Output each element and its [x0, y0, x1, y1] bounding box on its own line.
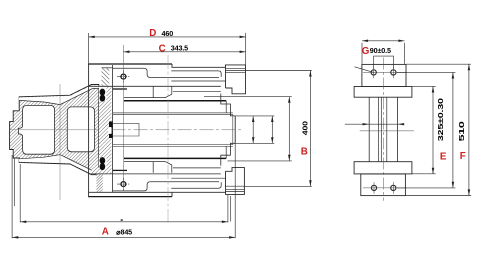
slot bottom line3 [171, 177, 226, 179]
hopper channel white band bottom [19, 155, 99, 174]
flange hatch middle [99, 86, 111, 174]
hopper cavity 2 [67, 107, 94, 152]
key block top [124, 86, 172, 97]
svg-text:D: D [149, 28, 156, 39]
top plate [354, 87, 412, 98]
bore thick top [124, 100, 226, 102]
top hole 2 [391, 70, 396, 75]
gland hatch band top [102, 68, 110, 87]
ext G left [361, 43, 363, 64]
bottom holes centerline [363, 187, 407, 189]
hopper vertical centerline [59, 84, 61, 200]
seal blob 3 [100, 157, 106, 164]
main vertical centerline [167, 55, 169, 223]
ext line A left [11, 155, 13, 238]
hopper horizontal centerline [10, 129, 99, 131]
body step line top 2 [204, 96, 228, 98]
clamp vertical centerline [382, 58, 384, 201]
seal pocket bottom [99, 158, 107, 168]
counterbore stub top [113, 88, 127, 90]
body bottom edge [88, 196, 172, 198]
slot top profile 2 [171, 71, 221, 77]
ext line B bottom [244, 185, 311, 187]
step edge ext line [230, 196, 232, 222]
body step line bottom 1 [173, 167, 221, 169]
ext line 400 bottom [228, 160, 292, 162]
dim line 510 / F [468, 64, 470, 195]
shoulder bottom [89, 173, 221, 175]
counterbore stub bottom [113, 169, 127, 171]
dim line C 343.5 [123, 51, 245, 53]
ext 325 bottom [397, 187, 455, 189]
shaft inner face line [232, 115, 234, 145]
svg-text:C: C [159, 44, 166, 55]
svg-text:90±0.5: 90±0.5 [370, 46, 391, 55]
leader diagonal into hole1 [355, 67, 374, 73]
dim line 400 [288, 97, 290, 161]
svg-text:B: B [301, 146, 308, 157]
keyway white notch [108, 127, 111, 134]
dim line A 845 [12, 236, 235, 238]
svg-text:343.5: 343.5 [171, 44, 188, 53]
ext line D/C right [245, 33, 247, 65]
ext 510 top [406, 63, 471, 65]
bore double bottom [113, 144, 233, 146]
hopper channel inner line top [19, 88, 99, 104]
seal blob 1 [100, 89, 106, 96]
dim line E [432, 86, 434, 173]
dim line unlabeled bottom [20, 221, 228, 223]
bracket 90±0.5 [374, 56, 394, 69]
svg-text:460: 460 [162, 29, 174, 38]
ext line upper-dim right [227, 195, 229, 223]
dim line shaft dia 1 [252, 116, 254, 143]
svg-text:E: E [440, 152, 447, 163]
ext line 400 top [228, 96, 292, 98]
top hole 1 [371, 70, 376, 75]
hopper channel inner line bottom [19, 155, 99, 171]
body top step [172, 64, 226, 67]
hopper cavity 1 [18, 105, 54, 154]
body step line top 1 [173, 90, 221, 92]
bolt hole bottom [121, 182, 126, 187]
bottom right block [226, 168, 245, 195]
flange left face [88, 64, 90, 197]
svg-text:325±0.30: 325±0.30 [436, 98, 445, 141]
ext line upper-dim left [19, 164, 21, 223]
body bottom step [89, 192, 226, 196]
dim line B [309, 71, 311, 187]
hopper channel white band top [19, 85, 99, 104]
slot bottom profile [113, 182, 219, 191]
seal blob 2 [100, 95, 106, 102]
slot bottom profile 2 [171, 182, 221, 188]
ext 325 top [397, 71, 455, 73]
bottom block [361, 174, 406, 196]
wall edge ext line [13, 158, 15, 206]
top block inner lines [226, 67, 246, 69]
bolt axis vertical [122, 45, 124, 191]
bottom plate [354, 162, 412, 174]
flange right face [112, 65, 114, 192]
top block [362, 64, 406, 86]
hopper hatched body [10, 85, 99, 175]
key block bottom [124, 162, 172, 173]
seal blob 4 [100, 163, 106, 170]
ext line shaft bottom [235, 142, 274, 144]
bore end step top [225, 101, 227, 113]
ext line B top [226, 70, 312, 72]
bottom hole 2 [391, 185, 396, 190]
ext E bottom [412, 173, 436, 175]
slot top profile [113, 68, 219, 77]
shaft end face [234, 116, 236, 143]
rod dim line with arrows [345, 123, 405, 125]
svg-text:510: 510 [457, 121, 466, 141]
top right block [226, 65, 246, 94]
top holes centerline [363, 71, 407, 73]
ext line D left [88, 33, 90, 64]
bottom block inner lines [226, 191, 245, 193]
gland hatch band bottom [96, 174, 102, 192]
dim line shaft dia 2 [271, 116, 273, 143]
ext 510 bottom [405, 195, 471, 197]
svg-text:G: G [362, 46, 370, 57]
inner shoulder near flange [113, 123, 139, 136]
rods [368, 97, 370, 162]
gland band top border [102, 67, 113, 69]
ext line A right [234, 143, 236, 238]
right end outer profile top [221, 94, 235, 116]
rod mid line [360, 130, 414, 132]
svg-text:⌀845: ⌀845 [116, 227, 132, 236]
tiny tick above bottom dim [121, 219, 123, 221]
slot top line3 [171, 80, 226, 82]
body top edge [88, 63, 172, 65]
bore double top [113, 112, 233, 114]
dim line 325 [452, 72, 454, 187]
hub dark strip at keyway [109, 122, 113, 139]
seal pocket top [99, 87, 107, 101]
svg-text:F: F [460, 151, 466, 162]
bore thick bottom [124, 157, 226, 159]
right end outer profile bottom [221, 143, 235, 165]
ext G right [404, 43, 406, 64]
bolt hole top [121, 74, 126, 79]
dim line D 460 [89, 36, 246, 38]
svg-text:400: 400 [301, 121, 310, 135]
main horizontal centerline [112, 129, 244, 131]
ext E top [412, 85, 436, 87]
shoulder top [89, 85, 221, 87]
dim line G [362, 40, 405, 42]
ext line shaft top [235, 115, 274, 117]
bore end step bottom [225, 146, 227, 158]
bottom hole 1 [371, 185, 376, 190]
svg-text:A: A [102, 227, 109, 238]
